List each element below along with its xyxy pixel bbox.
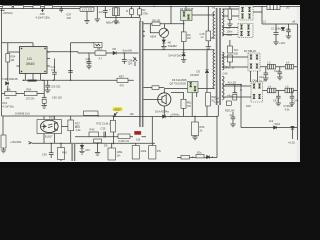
svg-text:C50 332: C50 332 xyxy=(51,85,61,89)
svg-text:C10: C10 xyxy=(274,69,279,73)
svg-text:+16V/360: +16V/360 xyxy=(10,140,22,144)
svg-text:D8: D8 xyxy=(113,47,117,51)
svg-text:1,20: 1,20 xyxy=(214,100,220,104)
svg-text:1M: 1M xyxy=(11,58,15,62)
svg-text:d32: d32 xyxy=(67,16,72,20)
svg-text:C24: C24 xyxy=(214,97,219,101)
svg-text:C40: C40 xyxy=(223,72,228,76)
svg-text:4,10nF 250v: 4,10nF 250v xyxy=(36,16,51,20)
svg-text:R: R xyxy=(126,9,128,13)
svg-text:D9: D9 xyxy=(104,144,108,148)
svg-text:+325V: +325V xyxy=(113,107,121,111)
svg-text:270k: 270k xyxy=(142,11,148,15)
svg-text:D10: D10 xyxy=(246,104,251,108)
svg-text:4,7: 4,7 xyxy=(99,57,103,61)
svg-text:-C65: -C65 xyxy=(39,12,45,16)
svg-text:10k: 10k xyxy=(136,138,141,142)
svg-text:47k: 47k xyxy=(6,96,11,100)
svg-text:R01: R01 xyxy=(187,101,192,105)
svg-text:10k: 10k xyxy=(130,112,135,116)
svg-text:Q6 TSX13005: Q6 TSX13005 xyxy=(170,81,187,85)
svg-text:R04: R04 xyxy=(27,88,32,92)
svg-text:100n: 100n xyxy=(227,30,233,34)
svg-text:1u 1Kv: 1u 1Kv xyxy=(259,78,268,82)
svg-text:471: 471 xyxy=(51,68,56,72)
svg-text:C36: C36 xyxy=(42,153,47,157)
svg-text:+12V: +12V xyxy=(279,41,285,45)
svg-text:C60 102: C60 102 xyxy=(52,96,62,100)
svg-text:+B: +B xyxy=(292,20,296,24)
svg-text:170 2%: 170 2% xyxy=(26,96,35,100)
svg-text:2n2: 2n2 xyxy=(269,119,274,123)
svg-text:+5 (5): +5 (5) xyxy=(288,141,295,145)
svg-text:H5k: H5k xyxy=(135,131,140,135)
svg-text:R40: R40 xyxy=(90,127,95,131)
svg-text:A1 L29: A1 L29 xyxy=(228,80,237,84)
svg-text:1W: 1W xyxy=(187,36,191,40)
svg-text:4,7uF 50v: 4,7uF 50v xyxy=(2,105,14,109)
svg-text:124: 124 xyxy=(128,62,133,66)
svg-text:C43: C43 xyxy=(294,99,299,103)
svg-text:R2: R2 xyxy=(142,8,146,12)
svg-text:7vd8 1N4148: 7vd8 1N4148 xyxy=(2,77,18,81)
svg-text:C41: C41 xyxy=(273,99,278,103)
svg-text:R24: R24 xyxy=(11,55,16,59)
svg-text:T10: T10 xyxy=(234,48,239,52)
svg-text:470: 470 xyxy=(120,84,125,88)
svg-text:D6 19A1568: D6 19A1568 xyxy=(172,78,187,82)
svg-text:3945: 3945 xyxy=(26,61,36,66)
svg-text:R05 2W: R05 2W xyxy=(225,109,235,113)
svg-text:UF1007: UF1007 xyxy=(190,73,200,77)
svg-text:R6 1R: R6 1R xyxy=(153,18,160,22)
svg-text:82n: 82n xyxy=(197,151,202,155)
svg-text:~ 230VAC: ~ 230VAC xyxy=(1,11,13,15)
svg-text:0,3W 1%: 0,3W 1% xyxy=(119,139,130,143)
svg-text:C1 100uF: C1 100uF xyxy=(271,27,283,31)
svg-text:C15: C15 xyxy=(200,32,205,36)
svg-text:R50: R50 xyxy=(200,125,205,129)
svg-text:JO:: JO: xyxy=(286,6,290,10)
svg-text:1N5408 Gx3: 1N5408 Gx3 xyxy=(15,111,30,115)
svg-text:Snw140: Snw140 xyxy=(123,49,133,53)
svg-text:CY3 332: CY3 332 xyxy=(82,7,93,11)
svg-text:1M: 1M xyxy=(187,33,191,37)
svg-text:Tr1: Tr1 xyxy=(212,6,216,10)
svg-text:240k: 240k xyxy=(141,149,147,153)
svg-text:D/4 UF1007: D/4 UF1007 xyxy=(169,53,184,57)
svg-text:A504: A504 xyxy=(150,35,157,39)
svg-text:THERM: THERM xyxy=(168,44,177,48)
svg-text:40k: 40k xyxy=(7,88,12,92)
svg-text:R37: R37 xyxy=(75,122,80,126)
svg-text:EL817: EL817 xyxy=(45,135,53,139)
svg-text:R51: R51 xyxy=(97,47,102,51)
svg-text:250v: 250v xyxy=(227,33,233,37)
svg-text:+24Vdc: +24Vdc xyxy=(171,113,181,117)
svg-text:4,3k: 4,3k xyxy=(285,107,291,111)
svg-text:D14 ADR4a: D14 ADR4a xyxy=(155,110,169,114)
svg-text:-C57: -C57 xyxy=(66,12,72,16)
svg-text:R57: R57 xyxy=(119,75,124,79)
svg-text:MO2 15: MO2 15 xyxy=(225,66,235,70)
svg-text:C16: C16 xyxy=(2,101,7,105)
svg-text:7k6: 7k6 xyxy=(187,104,192,108)
svg-text:PC2: PC2 xyxy=(49,116,55,120)
svg-text:C35: C35 xyxy=(101,127,106,131)
svg-text:139k: 139k xyxy=(117,150,123,154)
svg-text:50v2: 50v2 xyxy=(275,122,281,126)
svg-text:47k: 47k xyxy=(157,149,162,153)
svg-text:500: 500 xyxy=(234,52,239,56)
svg-text:4u7: 4u7 xyxy=(99,10,104,14)
svg-text:D2 SBL20: D2 SBL20 xyxy=(244,49,256,53)
svg-text:R40: R40 xyxy=(62,151,67,155)
svg-text:U32: U32 xyxy=(85,148,90,152)
